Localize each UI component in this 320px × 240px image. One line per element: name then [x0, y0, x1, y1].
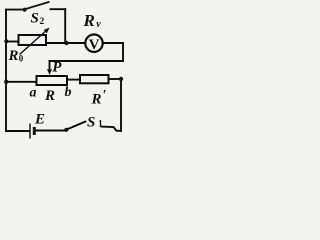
wire row2 left (rail to R0) [6, 41, 19, 43]
node junction on left rail row2 [4, 39, 8, 43]
wire battery to switch S1 [36, 130, 65, 132]
svg-text:S: S [31, 10, 39, 26]
switch S2 contact dot [23, 8, 27, 12]
wire top-branch vertical [64, 9, 66, 43]
wire slider stem [49, 61, 51, 71]
wire row3 left (rail to a) [6, 81, 37, 83]
wire voltmeter right [103, 42, 123, 44]
wire S1 fixed side to bottom right corner [102, 127, 122, 131]
svg-text:b: b [65, 85, 72, 100]
wire top right segment [51, 8, 66, 10]
node junction on left rail row3 [4, 80, 8, 84]
node junction (top branch meets row2) [64, 41, 68, 45]
svg-text:P: P [52, 59, 62, 75]
voltmeter V [85, 35, 102, 52]
wire horizontal to slider P [50, 60, 124, 62]
wire R' to right rail [109, 78, 121, 80]
resistor R' box [80, 75, 109, 83]
svg-text:E: E [34, 112, 45, 128]
resistor R0 arrow [20, 28, 50, 55]
svg-text:R: R [8, 48, 19, 64]
wire right upper rail down [122, 43, 124, 61]
svg-text:R: R [44, 88, 55, 104]
svg-text:1: 1 [98, 120, 103, 130]
svg-text:R: R [83, 11, 95, 30]
node junction right of R' [119, 77, 123, 81]
potentiometer R box [37, 76, 68, 85]
svg-text:R: R [91, 92, 102, 108]
slider P arrowhead [47, 69, 52, 75]
switch S1 contact dot [64, 128, 68, 132]
switch S2 blade [26, 2, 49, 9]
svg-text:v: v [96, 19, 101, 30]
wire left rail [5, 10, 7, 131]
svg-text:S: S [87, 115, 95, 131]
svg-text:a: a [30, 86, 37, 101]
battery E long plate [29, 124, 31, 139]
wire top left segment [6, 9, 23, 11]
wire bottom left (rail to battery) [6, 130, 29, 132]
svg-text:V: V [89, 37, 100, 53]
svg-text:′: ′ [103, 88, 107, 103]
wire right lower rail down [120, 79, 122, 131]
wire R0 to junction to voltmeter [46, 42, 85, 44]
wire R to R' [67, 79, 80, 81]
svg-text:0: 0 [19, 54, 24, 64]
switch S1 blade [67, 122, 85, 130]
battery E short thick plate [33, 127, 36, 135]
svg-text:2: 2 [40, 17, 45, 27]
resistor R0 (variable) box [19, 35, 47, 45]
